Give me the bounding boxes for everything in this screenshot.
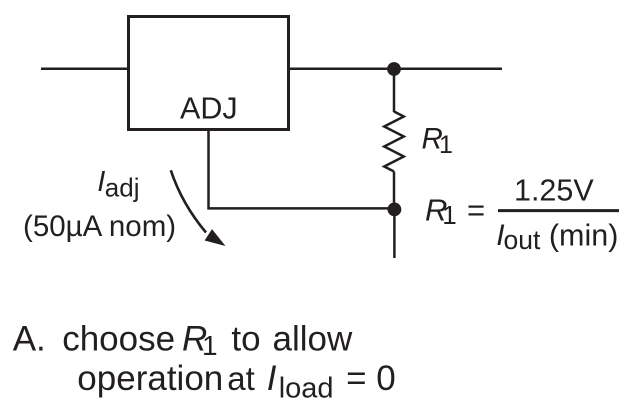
svg-text:to allow: to allow xyxy=(231,320,353,359)
svg-text:1.25V: 1.25V xyxy=(514,174,594,208)
label R1 xyxy=(422,122,453,159)
equation denominator Iout (min) xyxy=(496,218,618,255)
svg-text:at: at xyxy=(227,360,255,397)
svg-text:operation: operation xyxy=(77,359,223,398)
wire ADJ pin to bottom node xyxy=(209,131,391,208)
equation fraction bar xyxy=(498,209,619,212)
node junction bottom xyxy=(388,203,402,217)
wire below bottom node xyxy=(393,209,396,258)
current flow arrow Iadj xyxy=(171,170,226,246)
svg-text:ADJ: ADJ xyxy=(180,92,238,126)
svg-text:load: load xyxy=(279,373,334,405)
svg-text:1: 1 xyxy=(202,330,218,361)
caption line 1: A. choose R1 to allow xyxy=(13,320,353,361)
svg-text:choose: choose xyxy=(62,320,175,359)
node junction top xyxy=(387,62,401,76)
wire resistor to bottom node xyxy=(393,172,396,210)
resistor R1 xyxy=(384,112,404,172)
regulator box U1 xyxy=(129,17,289,130)
wire input left xyxy=(41,68,127,71)
svg-text:A.: A. xyxy=(13,320,46,359)
svg-text:I: I xyxy=(267,359,277,398)
caption line 2: operation at Iload = 0 xyxy=(77,359,395,405)
svg-text:adj: adj xyxy=(105,173,140,203)
label Iadj xyxy=(97,166,139,203)
svg-text:1: 1 xyxy=(442,200,456,230)
svg-text:out: out xyxy=(504,225,541,255)
equation: R1 = xyxy=(425,192,485,230)
svg-text:= 0: = 0 xyxy=(346,359,396,398)
svg-text:=: = xyxy=(467,192,485,227)
svg-text:(min): (min) xyxy=(549,218,618,252)
svg-text:(50µA nom): (50µA nom) xyxy=(23,210,176,243)
wire node to resistor xyxy=(393,69,396,112)
wire output right xyxy=(290,68,502,71)
svg-text:1: 1 xyxy=(439,131,453,159)
